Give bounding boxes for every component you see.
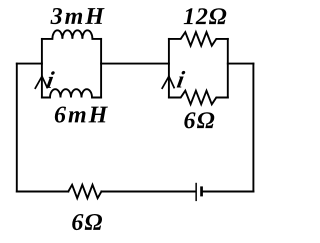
resistor R2 6ohm (bottom of right box) (169, 91, 228, 105)
resistor R3 6ohm (bottom wire) (68, 185, 101, 198)
svg-text:6mH: 6mH (54, 102, 109, 128)
wire: bottom right segment (202, 191, 253, 193)
wire: bottom middle segment (101, 191, 195, 193)
wire: mid horizontal right segment (228, 63, 254, 65)
wire: right box left vertical (168, 39, 170, 98)
inductor L1 3mH (top of left box) (42, 30, 101, 39)
wire: outer right vertical (252, 64, 254, 192)
wire: bottom left segment (17, 191, 69, 193)
current arrow i (right box) (162, 76, 174, 88)
wire: mid horizontal middle segment (101, 63, 169, 65)
resistor R1 12ohm (top of right box) (169, 32, 228, 46)
svg-text:12Ω: 12Ω (183, 4, 227, 30)
inductor L2 6mH (bottom of left box) (42, 89, 101, 97)
wire: left box right vertical (100, 39, 102, 98)
svg-text:6Ω: 6Ω (71, 210, 103, 236)
svg-text:6Ω: 6Ω (183, 108, 215, 134)
wire: right box right vertical (227, 39, 229, 98)
wire: outer left vertical (16, 64, 18, 192)
battery V1 short plate (200, 186, 203, 196)
wire: mid horizontal left segment (17, 63, 42, 65)
svg-text:3mH: 3mH (50, 4, 106, 30)
battery V1 long plate (195, 183, 197, 201)
current arrow i (left box) (35, 76, 47, 88)
wire: left box left vertical (41, 39, 43, 98)
